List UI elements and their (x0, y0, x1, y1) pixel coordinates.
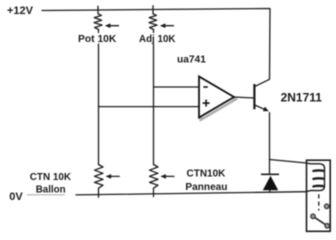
svg-text:ua741: ua741 (177, 55, 206, 66)
svg-text:CTN10K: CTN10K (187, 169, 227, 180)
svg-text:Pot 10K: Pot 10K (78, 34, 117, 45)
svg-text:Adj 10K: Adj 10K (139, 34, 175, 45)
svg-text:+12V: +12V (7, 5, 34, 17)
svg-text:CTN 10K: CTN 10K (30, 172, 72, 183)
svg-text:0V: 0V (9, 191, 23, 203)
svg-text:2N1711: 2N1711 (281, 90, 323, 104)
svg-text:Ballon: Ballon (36, 184, 66, 195)
svg-text:Panneau: Panneau (185, 182, 227, 193)
